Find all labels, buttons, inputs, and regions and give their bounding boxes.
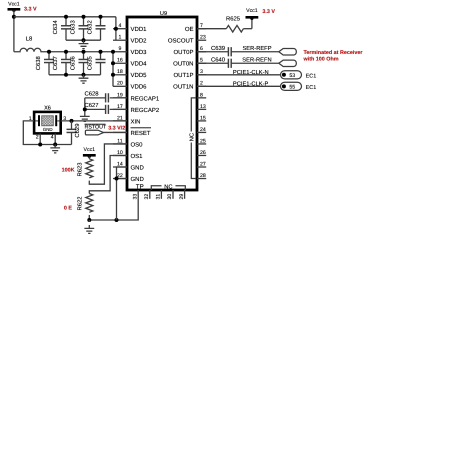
svg-text:L8: L8 bbox=[26, 36, 33, 43]
svg-text:3.3 V: 3.3 V bbox=[24, 6, 37, 12]
svg-text:SER-REFN: SER-REFN bbox=[242, 56, 271, 63]
svg-text:C627: C627 bbox=[84, 102, 98, 109]
svg-text:53: 53 bbox=[289, 73, 295, 79]
svg-text:OE: OE bbox=[185, 26, 194, 33]
svg-text:Vcc1: Vcc1 bbox=[246, 8, 258, 14]
svg-text:NC: NC bbox=[188, 133, 195, 141]
svg-text:VDD2: VDD2 bbox=[131, 38, 148, 45]
svg-text:100K: 100K bbox=[62, 168, 75, 174]
svg-text:25: 25 bbox=[200, 138, 206, 144]
svg-text:GND: GND bbox=[43, 127, 53, 132]
svg-text:33: 33 bbox=[132, 194, 138, 200]
svg-text:4: 4 bbox=[118, 23, 121, 29]
svg-text:23: 23 bbox=[200, 35, 206, 41]
svg-text:C632: C632 bbox=[86, 20, 93, 34]
svg-text:EC1: EC1 bbox=[306, 73, 317, 79]
svg-text:OS1: OS1 bbox=[131, 153, 144, 160]
svg-text:27: 27 bbox=[200, 161, 206, 167]
svg-text:PCIE1-CLK-N: PCIE1-CLK-N bbox=[233, 69, 269, 76]
svg-text:C636: C636 bbox=[69, 55, 76, 70]
svg-text:C633: C633 bbox=[69, 20, 76, 35]
svg-text:32: 32 bbox=[144, 194, 150, 200]
svg-text:R625: R625 bbox=[226, 16, 241, 23]
svg-text:2: 2 bbox=[36, 135, 39, 141]
svg-text:RSTOUT: RSTOUT bbox=[85, 125, 107, 131]
svg-text:55: 55 bbox=[289, 85, 295, 91]
svg-text:EC1: EC1 bbox=[306, 85, 317, 91]
svg-text:VDD6: VDD6 bbox=[131, 84, 148, 91]
svg-text:18: 18 bbox=[117, 69, 123, 75]
svg-text:C638: C638 bbox=[35, 55, 42, 70]
svg-text:VDD4: VDD4 bbox=[131, 61, 148, 68]
svg-text:3.3 V: 3.3 V bbox=[262, 9, 275, 15]
svg-text:28: 28 bbox=[200, 173, 206, 179]
svg-text:4: 4 bbox=[51, 135, 54, 141]
svg-text:OUT1P: OUT1P bbox=[173, 72, 193, 79]
svg-text:C634: C634 bbox=[52, 20, 59, 35]
svg-text:3.3 V/2: 3.3 V/2 bbox=[108, 126, 125, 132]
svg-text:VDD1: VDD1 bbox=[131, 26, 148, 33]
svg-text:OUT0N: OUT0N bbox=[173, 61, 193, 68]
svg-text:16: 16 bbox=[117, 58, 123, 64]
svg-text:15: 15 bbox=[200, 115, 206, 121]
svg-text:GND: GND bbox=[131, 176, 145, 183]
svg-text:C640: C640 bbox=[211, 56, 226, 63]
svg-text:OS0: OS0 bbox=[131, 141, 144, 148]
svg-text:24: 24 bbox=[200, 127, 206, 133]
svg-text:20: 20 bbox=[117, 81, 123, 87]
svg-text:OSCOUT: OSCOUT bbox=[168, 38, 194, 45]
svg-text:U9: U9 bbox=[160, 11, 167, 17]
svg-text:1: 1 bbox=[118, 35, 121, 41]
svg-text:X6: X6 bbox=[44, 106, 51, 112]
svg-text:with 100 Ohm: with 100 Ohm bbox=[303, 57, 339, 63]
svg-text:C628: C628 bbox=[84, 90, 99, 97]
svg-text:TP: TP bbox=[136, 183, 144, 190]
svg-text:C639: C639 bbox=[211, 45, 225, 52]
svg-text:8: 8 bbox=[200, 92, 203, 98]
svg-text:OUT1N: OUT1N bbox=[173, 84, 193, 91]
svg-text:26: 26 bbox=[200, 150, 206, 156]
svg-text:REGCAP2: REGCAP2 bbox=[131, 107, 160, 114]
svg-text:31: 31 bbox=[156, 194, 162, 200]
svg-text:0 E: 0 E bbox=[64, 205, 72, 211]
svg-text:NC: NC bbox=[164, 183, 172, 190]
svg-text:GND: GND bbox=[131, 164, 145, 171]
svg-text:13: 13 bbox=[200, 104, 206, 110]
svg-text:30: 30 bbox=[167, 194, 173, 200]
svg-text:RESET: RESET bbox=[131, 130, 151, 137]
svg-text:SER-REFP: SER-REFP bbox=[242, 45, 271, 52]
svg-text:C635: C635 bbox=[86, 55, 93, 70]
svg-text:Vcc1: Vcc1 bbox=[8, 2, 20, 8]
svg-text:Terminated at Receiver: Terminated at Receiver bbox=[304, 50, 364, 56]
svg-text:XIN: XIN bbox=[131, 118, 141, 125]
svg-text:Vcc1: Vcc1 bbox=[84, 147, 96, 153]
svg-text:C629: C629 bbox=[74, 124, 81, 138]
svg-text:R623: R623 bbox=[77, 162, 84, 177]
svg-text:29: 29 bbox=[179, 194, 185, 200]
svg-text:VDD5: VDD5 bbox=[131, 72, 148, 79]
svg-text:VDD3: VDD3 bbox=[131, 49, 148, 56]
svg-text:C637: C637 bbox=[52, 56, 59, 70]
svg-text:PCIE1-CLK-P: PCIE1-CLK-P bbox=[233, 80, 269, 87]
svg-text:R622: R622 bbox=[77, 196, 84, 210]
svg-text:OUT0P: OUT0P bbox=[173, 49, 193, 56]
svg-text:REGCAP1: REGCAP1 bbox=[131, 95, 160, 102]
svg-text:9: 9 bbox=[118, 46, 121, 52]
